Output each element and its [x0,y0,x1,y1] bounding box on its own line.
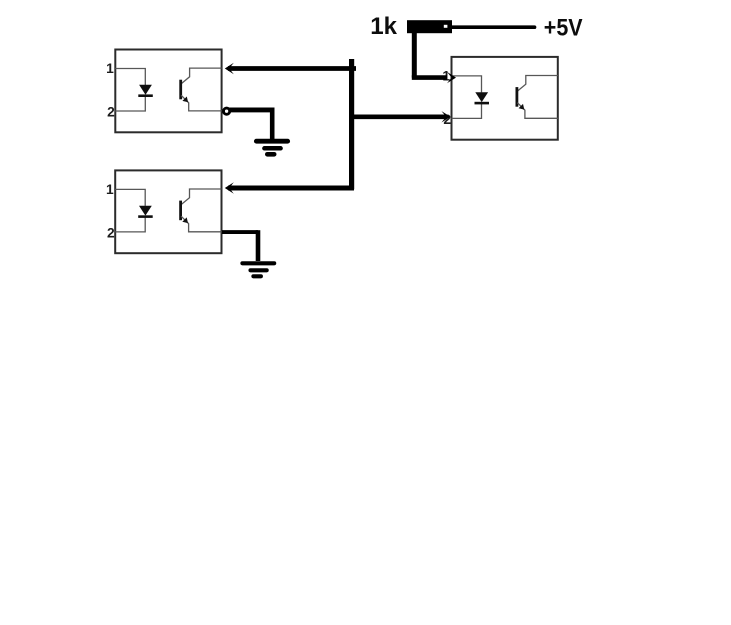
wire: U2 ground drop (vertical) [256,230,261,261]
U3 (right) phototransistor emitter lead [517,103,557,119]
U1 (top-left) phototransistor emitter lead [181,95,221,111]
U1 (top-left) LED triangle [139,85,152,95]
U2 (bottom-left) LED anode/cathode leads [115,189,145,232]
wire: U1 pin 2 to ground (horizontal) [225,107,272,112]
wire: bus to U1 pin 1 [228,66,356,71]
svg-text:1k: 1k [370,13,397,40]
U2 (bottom-left) phototransistor collector lead [181,189,221,205]
optocoupler U2 (bottom-left) [106,170,221,253]
wire: U2 pin 2 to ground (horizontal) [222,230,258,234]
U3 (right) LED anode/cathode leads [452,76,482,119]
U1 (top-left) LED anode/cathode leads [115,69,145,112]
U3 (right) LED triangle [475,92,488,102]
wire: vertical bus from node A down to U2 branch [349,59,354,189]
U1 (top-left) LED cathode bar [138,94,153,97]
wire: resistor to +5V [451,25,535,29]
wire: resistor down-leg to U3 pin 1 (vertical) [412,31,417,78]
resistor R1 body (solid bar) [407,20,452,33]
U1 (top-left) emitter arrow [182,97,188,103]
svg-text:1: 1 [106,61,114,76]
U2 (bottom-left) emitter arrow [182,217,188,223]
U1 (top-left) phototransistor collector lead [181,68,221,84]
U2 (bottom-left) LED triangle [139,206,152,216]
U3 (right) LED cathode bar [475,102,490,105]
arrowhead into U1 pin 1 [225,63,234,74]
U2 (bottom-left) phototransistor emitter lead [181,216,221,232]
U2 (bottom-left) phototransistor base bar [179,201,182,221]
U3 (right) phototransistor collector lead [517,76,557,92]
U3 (right) package outline [452,57,558,140]
svg-text:2: 2 [107,105,115,120]
wire: bus to U3 pin 2 [349,114,447,119]
U2 (bottom-left) LED cathode bar [138,215,153,218]
U3 (right) phototransistor base bar [516,87,519,107]
wire: U1 ground drop (vertical) [270,108,275,141]
U1 (top-left) phototransistor base bar [179,80,182,100]
U1 (top-left) package outline [115,50,221,133]
U2 (bottom-left) package outline [115,170,221,253]
svg-text:2: 2 [107,225,115,240]
svg-text:1: 1 [106,182,114,197]
optocoupler U1 (top-left) [106,50,221,133]
node: U1 pin 2 terminal circle [224,108,230,114]
U3 (right) emitter arrow [519,104,525,110]
ground symbol for U1 [256,141,287,154]
ground symbol for U2 [242,263,274,276]
arrowhead into U3 pin 1 [447,72,456,83]
arrowhead into U3 pin 2 [442,111,451,122]
wire: resistor leg to U3 pin 1 (horizontal) [412,75,447,80]
arrowhead into U2 pin 1 [225,182,234,193]
svg-text:+5V: +5V [544,15,583,42]
optocoupler U3 (right) [442,57,557,140]
wire: bus to U2 pin 1 [228,186,354,191]
